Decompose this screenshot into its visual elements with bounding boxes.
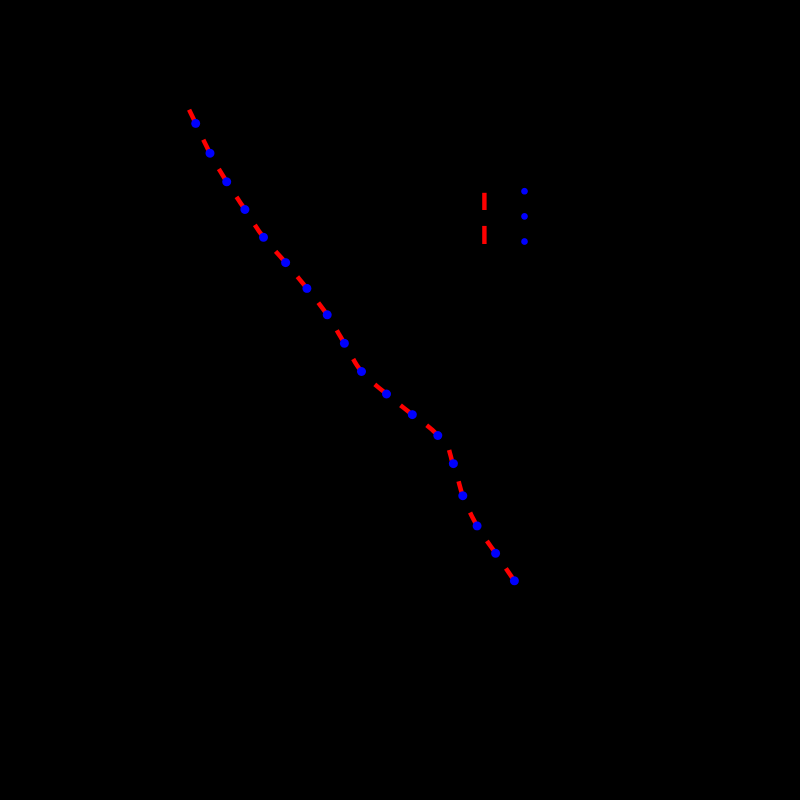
data point P17 — [491, 549, 500, 558]
data point P9 — [340, 339, 349, 348]
red dash D3 — [237, 197, 245, 210]
red dash D8 — [337, 330, 345, 343]
legend point marker 1 — [521, 188, 528, 195]
legend dashed line sample: lower dash — [482, 226, 486, 244]
red dash D15 — [470, 513, 477, 526]
data point P15 — [458, 491, 467, 500]
red dash D11 — [401, 405, 413, 414]
legend point marker 3 — [521, 238, 528, 245]
red dash D17 — [506, 568, 515, 580]
red dash D9 — [353, 359, 361, 372]
data point P7 — [302, 284, 311, 293]
red dash D0 — [189, 110, 196, 124]
red dash D7 — [318, 303, 327, 315]
red dash D14 — [459, 481, 463, 495]
data point P4 — [240, 205, 249, 214]
data point P12 — [408, 410, 417, 419]
data point P10 — [357, 367, 366, 376]
red dash D16 — [487, 541, 496, 553]
data point P5 — [259, 233, 268, 242]
data point P2 — [206, 149, 215, 158]
red dash D2 — [219, 169, 227, 182]
red dash D4 — [255, 225, 264, 237]
data point P6 — [281, 258, 290, 267]
red dash D12 — [427, 425, 438, 435]
legend point marker 2 — [521, 213, 528, 220]
data point P3 — [222, 177, 231, 186]
legend dashed line sample: upper dash — [482, 193, 486, 210]
data point P8 — [323, 310, 332, 319]
data point P14 — [449, 459, 458, 468]
data point P13 — [433, 431, 442, 440]
data point P16 — [473, 521, 482, 530]
data point P18 — [510, 576, 519, 585]
data point P11 — [382, 390, 391, 399]
red dash D10 — [375, 384, 387, 394]
red dash D5 — [276, 251, 286, 262]
red dash D6 — [297, 277, 307, 289]
data point P1 — [191, 119, 200, 128]
red dash D1 — [203, 140, 210, 154]
red dash D13 — [449, 450, 453, 463]
